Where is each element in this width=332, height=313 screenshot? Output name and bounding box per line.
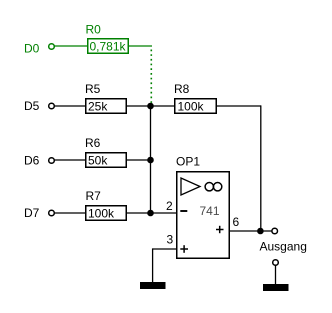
plus sign non-inverting input <box>180 248 188 250</box>
junction output node <box>257 228 264 235</box>
wire dotted green connection down to summing node <box>150 50 152 104</box>
wire R8 output to feedback corner <box>217 105 262 107</box>
wire D6 to R6 <box>55 159 87 161</box>
wire D5 to R5 <box>55 105 87 107</box>
resistor R0 (green, value 0,781k) <box>86 23 129 54</box>
wire D0 to R0 <box>55 45 88 47</box>
wire D7 to R7 <box>55 212 87 214</box>
wire R0 output <box>129 45 153 47</box>
svg-text:3: 3 <box>167 233 174 247</box>
wire pin 3 to ground <box>153 248 177 250</box>
svg-text:0,781k: 0,781k <box>90 40 127 54</box>
junction at R7 row <box>147 210 154 217</box>
svg-text:D5: D5 <box>24 99 40 113</box>
resistor R6 (50k) <box>85 136 126 167</box>
svg-text:50k: 50k <box>88 153 108 167</box>
svg-text:25k: 25k <box>88 99 108 113</box>
svg-text:D0: D0 <box>24 42 40 56</box>
svg-text:R0: R0 <box>86 23 102 37</box>
svg-text:R7: R7 <box>86 189 102 203</box>
junction at R5 row <box>147 103 154 110</box>
node D6 (input terminal) <box>49 158 55 164</box>
svg-text:OP1: OP1 <box>176 155 200 169</box>
resistor R5 (25k) <box>85 82 126 113</box>
svg-text:741: 741 <box>200 204 220 218</box>
wire R7 to op-amp inverting input <box>127 212 177 214</box>
resistor R8 (feedback 100k) <box>174 82 216 113</box>
op-amp OP1 (741) <box>166 155 240 259</box>
junction at R6 row <box>147 157 154 164</box>
node D0 (input terminal, green) <box>49 44 55 50</box>
node D7 (input terminal) <box>49 210 55 216</box>
infinity symbol <box>205 183 213 191</box>
svg-text:R5: R5 <box>85 82 101 96</box>
node output reference terminal <box>273 260 279 266</box>
svg-text:D6: D6 <box>24 154 40 168</box>
svg-text:2: 2 <box>166 199 173 213</box>
svg-text:Ausgang: Ausgang <box>260 240 307 254</box>
svg-text:6: 6 <box>233 215 240 229</box>
minus sign inverting input <box>180 210 187 212</box>
node D5 (input terminal) <box>49 103 55 109</box>
resistor R7 (100k) <box>86 189 127 220</box>
wire R6 to summing bus <box>127 159 152 161</box>
svg-text:R6: R6 <box>85 136 101 150</box>
wire summing bus vertical <box>150 106 152 213</box>
svg-text:D7: D7 <box>24 206 40 220</box>
wire R5 to summing bus and on to R8 <box>127 105 175 107</box>
wire pin 6 output <box>230 230 272 232</box>
svg-text:100k: 100k <box>88 206 115 220</box>
wire reference terminal to ground <box>275 266 277 285</box>
triangle symbol <box>181 178 200 195</box>
svg-text:100k: 100k <box>178 99 205 113</box>
node Ausgang (output terminal) <box>272 228 278 234</box>
wire feedback vertical down to output node <box>260 105 262 231</box>
ground (op-amp non-inverting input) <box>140 282 166 289</box>
svg-text:R8: R8 <box>174 82 190 96</box>
ground (output reference) <box>263 284 289 291</box>
plus sign output polarity <box>216 229 224 231</box>
